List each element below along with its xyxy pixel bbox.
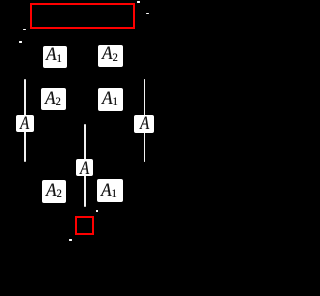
wire left	[24, 79, 26, 162]
node A1 row1	[43, 46, 67, 68]
node A1 row3	[97, 179, 123, 202]
node A2 row1	[98, 45, 123, 68]
node A1 row2	[98, 88, 123, 111]
node A2 row2	[41, 88, 67, 111]
dash d6	[69, 239, 72, 241]
dash d2	[19, 41, 22, 43]
node A2 row3	[42, 180, 66, 203]
red rectangle (top node)	[30, 3, 135, 29]
dash d3	[137, 1, 140, 3]
red square (bottom node)	[75, 216, 94, 236]
dash d4	[146, 13, 149, 15]
node A left	[16, 115, 33, 132]
wire right	[144, 79, 146, 162]
dash d1	[23, 29, 25, 31]
wire center	[84, 124, 86, 207]
node A right	[134, 115, 154, 133]
node A center	[76, 159, 93, 176]
dash d5	[96, 210, 99, 212]
